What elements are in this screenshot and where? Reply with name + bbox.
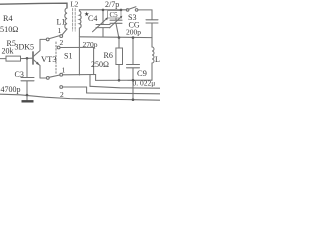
transistor VT3 xyxy=(32,52,34,64)
wire top feed from R4 xyxy=(0,3,67,8)
svg-text:R6: R6 xyxy=(104,51,113,60)
svg-text:R4: R4 xyxy=(3,14,13,23)
wire tank bottom bus xyxy=(79,36,152,39)
svg-text:VT3: VT3 xyxy=(41,54,57,64)
switch S1a contact 1 xyxy=(60,35,63,38)
switch S1 mechanical link xyxy=(55,42,57,75)
wire S1a contact2 horizontal xyxy=(60,46,93,48)
wire contact2 drop xyxy=(86,87,88,93)
capacitor C3 xyxy=(21,58,34,95)
svg-text:20k: 20k xyxy=(2,47,14,56)
capacitor C4 variable xyxy=(96,10,110,37)
wire contact1 drop to emitter bus xyxy=(95,75,97,81)
wire ground bus bottom xyxy=(0,94,160,100)
transistor VT3 emitter arrowhead xyxy=(36,62,39,65)
capacitor C4 arrowhead xyxy=(105,18,108,21)
wire vertical x79 bus to lower wire xyxy=(78,38,80,75)
switch S1a contact 2 xyxy=(57,46,60,49)
svg-text:C9: C9 xyxy=(137,68,147,78)
wire output line y87 xyxy=(90,86,160,88)
svg-text:1: 1 xyxy=(58,26,62,35)
switch S3 arm xyxy=(129,7,136,10)
capacitor C4 arrow xyxy=(93,18,108,32)
wire S1b contact1 horizontal xyxy=(63,74,96,76)
svg-text:200p: 200p xyxy=(126,28,141,37)
svg-text:2: 2 xyxy=(60,90,64,99)
capacitor C5 trimmer xyxy=(110,18,122,38)
inductor L1 primary winding xyxy=(65,8,67,29)
inductor L xyxy=(151,38,153,47)
svg-text:270p: 270p xyxy=(83,40,98,49)
switch S1a arm xyxy=(49,36,60,39)
switch S1a pole xyxy=(46,38,49,41)
capacitor CG xyxy=(146,20,158,38)
C5 label box xyxy=(108,11,122,18)
svg-text:S1: S1 xyxy=(64,52,72,61)
transformer core xyxy=(73,9,76,32)
wire output branch drop xyxy=(89,75,91,87)
wire L1 bottom to S1a contact 1 xyxy=(62,29,67,35)
svg-text:3DK5: 3DK5 xyxy=(15,43,35,52)
labels xyxy=(0,0,160,99)
svg-text:4700p: 4700p xyxy=(1,85,21,94)
switch S1b arm xyxy=(49,75,60,77)
svg-text:L: L xyxy=(155,55,160,64)
capacitor C5 arrow xyxy=(110,17,122,28)
ground stem xyxy=(26,95,28,100)
switch S1b contact 1 xyxy=(60,73,63,76)
svg-text:C3: C3 xyxy=(15,70,24,79)
switch S3 contacts xyxy=(126,9,129,12)
wire L2 top to tank top rail xyxy=(79,10,127,11)
wire return line y93 xyxy=(87,92,160,95)
junction dots xyxy=(26,9,135,101)
wire L2 bottom xyxy=(78,28,80,37)
svg-text:L2: L2 xyxy=(71,1,79,9)
capacitor C5 arrowhead xyxy=(120,16,123,19)
svg-text:C5: C5 xyxy=(110,11,119,19)
wire vertical x93 xyxy=(93,47,95,74)
svg-text:510Ω: 510Ω xyxy=(0,25,18,34)
resistor R6 xyxy=(118,38,120,49)
switch S1b contact 2 xyxy=(60,86,63,89)
svg-text:C4: C4 xyxy=(88,14,97,23)
svg-text:250Ω: 250Ω xyxy=(91,60,109,69)
resistor R5 xyxy=(0,58,6,60)
ground xyxy=(22,100,34,102)
svg-text:2: 2 xyxy=(60,38,64,47)
svg-text:0. 022μ: 0. 022μ xyxy=(133,79,156,88)
wire lower bus y80 xyxy=(96,79,152,81)
switch S1b pole xyxy=(46,77,49,80)
wire S3 to CG xyxy=(138,10,152,20)
svg-text:2/7p: 2/7p xyxy=(105,0,119,9)
inductor L2 secondary winding xyxy=(79,11,81,28)
svg-text:1: 1 xyxy=(62,66,66,75)
wire S1b contact2 horizontal xyxy=(63,86,87,88)
capacitor C9 xyxy=(127,38,140,100)
